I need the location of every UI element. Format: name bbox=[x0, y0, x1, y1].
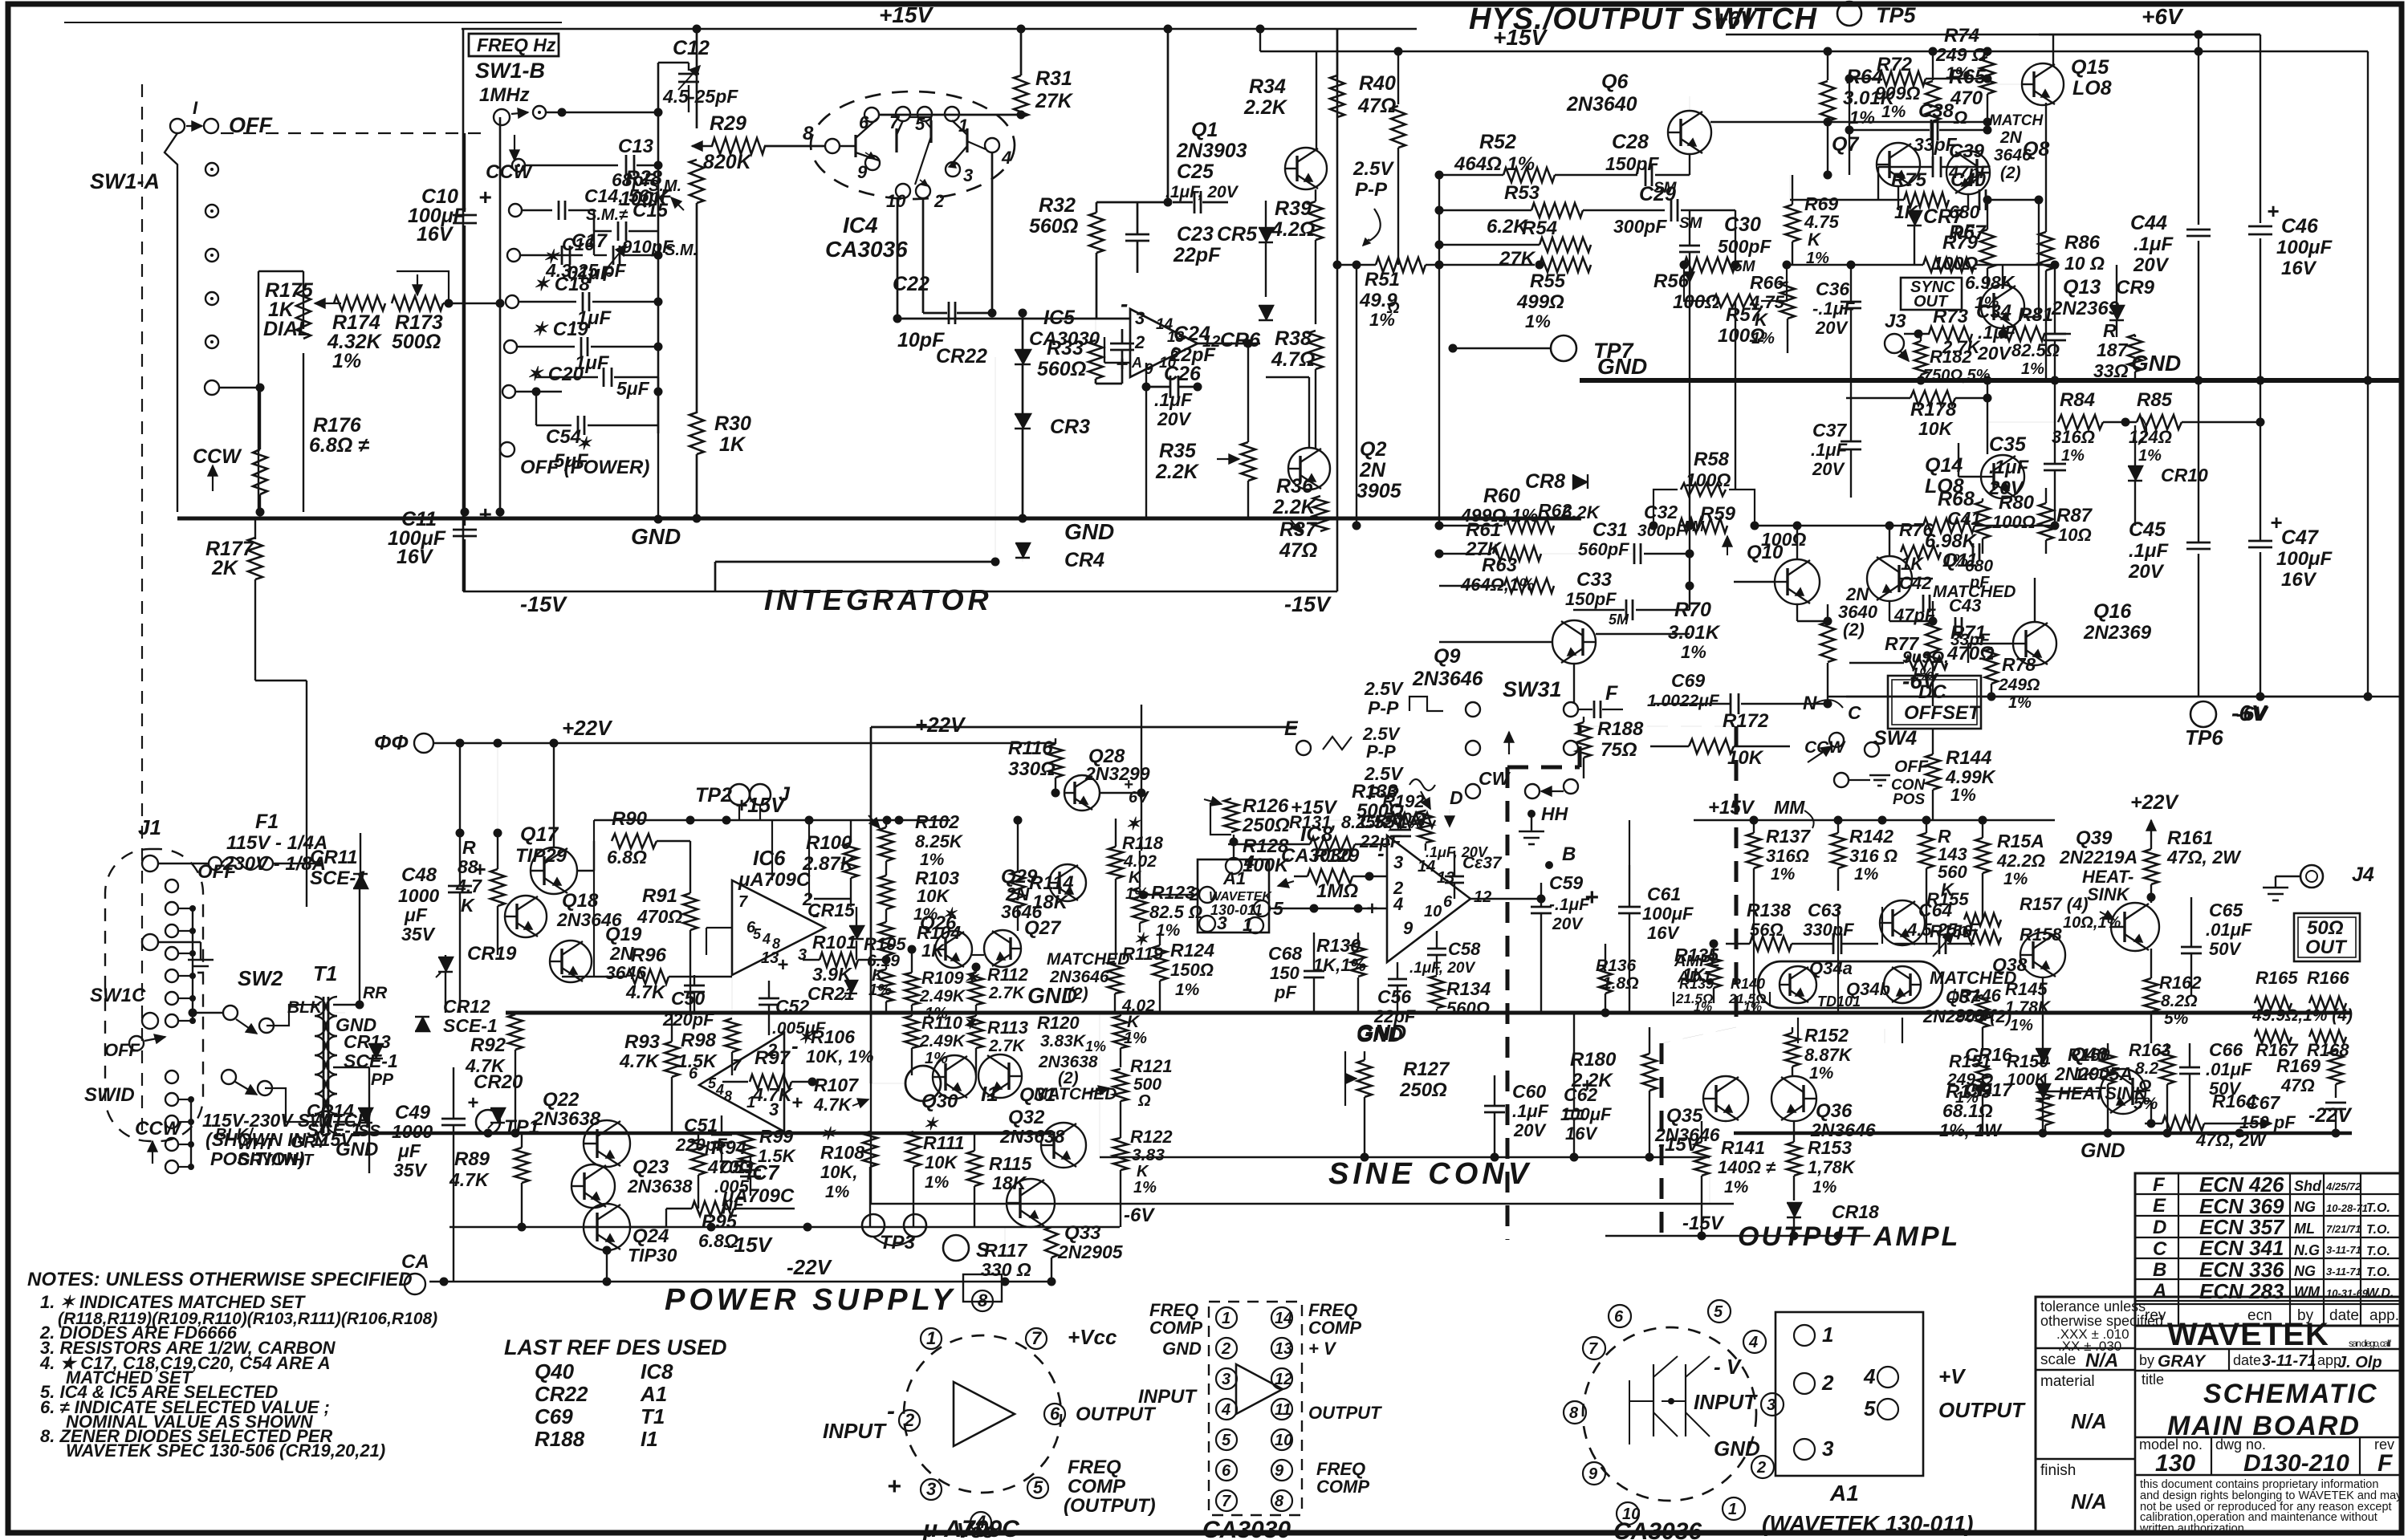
diode CR5 bbox=[1259, 228, 1273, 242]
svg-text:2N3903: 2N3903 bbox=[1176, 140, 1247, 162]
svg-text:+22V: +22V bbox=[2130, 791, 2179, 814]
resistor R99 1.5K bbox=[739, 1133, 754, 1165]
svg-text:C26: C26 bbox=[1164, 363, 1202, 385]
svg-text:7/21/71: 7/21/71 bbox=[2326, 1223, 2361, 1235]
capacitor C20 5uF bbox=[502, 385, 515, 398]
resistor R130 1K 1% bbox=[1351, 943, 1365, 977]
svg-text:IC4: IC4 bbox=[843, 213, 878, 238]
svg-text:2N3299: 2N3299 bbox=[1084, 763, 1150, 784]
svg-text:Q40: Q40 bbox=[2071, 1044, 2108, 1066]
svg-text:R38: R38 bbox=[1275, 327, 1312, 350]
capacitor C47 100uF 16V bbox=[2248, 540, 2272, 542]
diode CR8 bbox=[1573, 474, 1588, 489]
wire IC5 out bbox=[1198, 343, 1260, 345]
wire -15V output bbox=[1605, 1235, 1870, 1237]
svg-text:R90: R90 bbox=[612, 808, 648, 830]
capacitor C51 220pF bbox=[711, 1134, 732, 1136]
svg-text:4: 4 bbox=[1001, 148, 1011, 168]
svg-text:+15V: +15V bbox=[1493, 25, 1548, 50]
svg-text:NG: NG bbox=[2294, 1263, 2316, 1279]
resistor R68 6.98K 1% bbox=[1755, 525, 1923, 526]
svg-text:13: 13 bbox=[1437, 869, 1454, 887]
svg-text:J4: J4 bbox=[2352, 863, 2374, 886]
svg-text:100μF: 100μF bbox=[1560, 1104, 1612, 1124]
capacitor C61 100uF 16V bbox=[1618, 906, 1641, 908]
svg-text:C60: C60 bbox=[1512, 1081, 1546, 1102]
svg-text:1.78K: 1.78K bbox=[2005, 998, 2052, 1017]
svg-text:CCW: CCW bbox=[193, 445, 242, 468]
svg-text:220pF: 220pF bbox=[662, 1010, 714, 1030]
svg-text:6: 6 bbox=[689, 1065, 698, 1083]
svg-text:1%: 1% bbox=[2010, 1017, 2033, 1034]
svg-text:C17: C17 bbox=[571, 230, 608, 252]
svg-text:✶ C19: ✶ C19 bbox=[531, 319, 588, 340]
svg-text:4: 4 bbox=[1221, 1401, 1230, 1419]
svg-text:-6V: -6V bbox=[1124, 1205, 1155, 1226]
svg-text:820K: 820K bbox=[703, 151, 753, 173]
svg-text:C42: C42 bbox=[1899, 573, 1932, 593]
svg-text:187: 187 bbox=[2097, 339, 2129, 360]
J1 pin bottom bbox=[142, 1013, 158, 1029]
svg-text:R188: R188 bbox=[535, 1427, 585, 1451]
svg-text:TIP29: TIP29 bbox=[515, 845, 567, 867]
svg-text:NOTES: UNLESS OTHERWISE SPECIF: NOTES: UNLESS OTHERWISE SPECIFIED bbox=[27, 1269, 413, 1290]
svg-text:249 Ω: 249 Ω bbox=[1935, 44, 1987, 65]
resistor R74 249ohm 1% bbox=[1987, 51, 1988, 56]
svg-text:OFF: OFF bbox=[104, 1040, 140, 1060]
svg-text:N/A: N/A bbox=[2085, 1350, 2118, 1371]
svg-text:K: K bbox=[1808, 230, 1822, 250]
svg-text:1%: 1% bbox=[1854, 865, 1879, 884]
svg-text:R127: R127 bbox=[1403, 1058, 1450, 1080]
resistor R33 560 ohm bbox=[1088, 340, 1103, 379]
test point J bbox=[750, 784, 771, 805]
resistor R53 6.2K bbox=[1531, 203, 1583, 217]
resistor R54 27K bbox=[1540, 238, 1591, 252]
svg-text:ΦΦ: ΦΦ bbox=[374, 730, 409, 754]
svg-text:.01μF: .01μF bbox=[2206, 1059, 2252, 1079]
svg-text:2N2905: 2N2905 bbox=[1057, 1241, 1124, 1262]
svg-text:9: 9 bbox=[857, 162, 868, 182]
wire IC4 pin1 to R31 bbox=[879, 114, 1021, 116]
svg-text:FREQ Hz: FREQ Hz bbox=[477, 35, 556, 55]
svg-text:R108: R108 bbox=[820, 1142, 864, 1163]
capacitor C56 22pF bbox=[1388, 978, 1407, 981]
svg-text:3: 3 bbox=[798, 946, 807, 964]
svg-text:R144: R144 bbox=[1946, 747, 1991, 769]
svg-text:2.2K: 2.2K bbox=[1272, 496, 1317, 518]
svg-text:SINK: SINK bbox=[2087, 884, 2131, 904]
svg-text:C36: C36 bbox=[1816, 278, 1849, 299]
diode CR10 bbox=[2128, 466, 2142, 481]
svg-text:1%: 1% bbox=[1950, 785, 1976, 805]
diode CR13 SCE-1 bbox=[368, 1044, 383, 1058]
capacitor C68 150pF bbox=[1304, 970, 1324, 973]
svg-text:IC8: IC8 bbox=[1300, 822, 1333, 846]
svg-text:9: 9 bbox=[1588, 1465, 1598, 1483]
transistor Q7 bbox=[1877, 143, 1920, 186]
wire T1 primary left bbox=[266, 1005, 319, 1026]
svg-text:1%: 1% bbox=[2061, 447, 2085, 465]
svg-text:TP7: TP7 bbox=[1593, 339, 1635, 363]
wire I1 feed vertical bbox=[870, 727, 872, 1083]
svg-text:GRAY: GRAY bbox=[2158, 1352, 2207, 1371]
svg-text:BLK: BLK bbox=[287, 998, 323, 1017]
svg-text:SINE CONV: SINE CONV bbox=[1328, 1157, 1532, 1191]
svg-text:Q33: Q33 bbox=[1064, 1222, 1101, 1244]
wire Q13 emitter bbox=[2002, 328, 2003, 334]
svg-text:R78: R78 bbox=[2002, 654, 2036, 675]
svg-text:3: 3 bbox=[1135, 308, 1145, 328]
svg-text:14: 14 bbox=[1275, 1310, 1292, 1327]
resistor R152 8.87K 1% bbox=[1785, 1033, 1800, 1067]
resistor R112 2.7K bbox=[969, 973, 983, 1005]
resistor R84 316ohm 1% bbox=[2058, 415, 2103, 429]
svg-text:-22V: -22V bbox=[787, 1255, 833, 1279]
svg-text:20V: 20V bbox=[1815, 318, 1849, 338]
svg-text:2N3638: 2N3638 bbox=[999, 1126, 1065, 1147]
svg-text:✶: ✶ bbox=[820, 1124, 836, 1144]
transistor Q27 bbox=[984, 930, 1021, 967]
svg-text:13: 13 bbox=[1275, 1340, 1292, 1358]
svg-text:Q13: Q13 bbox=[2063, 276, 2101, 299]
svg-text:SW2: SW2 bbox=[238, 966, 283, 990]
svg-text:MATCH: MATCH bbox=[1989, 112, 2044, 129]
resistor R67 6.98K 1% bbox=[1787, 264, 1923, 266]
svg-text:COMP: COMP bbox=[1068, 1476, 1126, 1497]
svg-text:7: 7 bbox=[738, 893, 748, 911]
svg-text:ML: ML bbox=[2294, 1221, 2315, 1237]
svg-text:R110✶: R110✶ bbox=[921, 1013, 978, 1033]
revision row F bbox=[2135, 1193, 2402, 1195]
svg-text:title: title bbox=[2142, 1371, 2164, 1388]
svg-text:1000: 1000 bbox=[398, 885, 439, 906]
svg-text:CR15: CR15 bbox=[807, 900, 856, 920]
resistor R138 56 ohm bbox=[1750, 937, 1792, 951]
op-amp IC8 CA3030 triangle bbox=[1387, 835, 1470, 962]
svg-text:OUTPUT: OUTPUT bbox=[1308, 1403, 1382, 1423]
svg-text:5μF: 5μF bbox=[616, 378, 650, 399]
test point TP7 bbox=[1551, 335, 1576, 361]
svg-text:2N: 2N bbox=[1999, 128, 2023, 147]
svg-text:1%: 1% bbox=[1806, 250, 1829, 267]
potentiometer R56 100 ohm bbox=[1684, 258, 1735, 272]
transistor Q23 2N3638 bbox=[571, 1164, 615, 1208]
wire R175 frame bbox=[258, 270, 303, 272]
svg-text:SCE-1: SCE-1 bbox=[344, 1050, 398, 1071]
svg-text:R139: R139 bbox=[1679, 976, 1714, 992]
svg-text:10: 10 bbox=[1275, 1432, 1292, 1449]
svg-text:date: date bbox=[2233, 1352, 2261, 1368]
transistor Q29 2N3646 bbox=[1049, 864, 1086, 901]
svg-text:3-11-71: 3-11-71 bbox=[2326, 1266, 2361, 1278]
resistor R75 1K bbox=[1904, 193, 1949, 207]
svg-text:150: 150 bbox=[1270, 963, 1300, 983]
wire +15V to right bbox=[1858, 51, 2368, 53]
capacitor C26 .1uF 20V bbox=[1169, 376, 1172, 398]
svg-text:50Ω: 50Ω bbox=[2307, 917, 2344, 939]
svg-text:2.49K: 2.49K bbox=[919, 1032, 966, 1050]
resistor R95 6.8 ohm bbox=[692, 1201, 734, 1216]
svg-text:100Ω: 100Ω bbox=[1686, 469, 1731, 490]
svg-text:150pF: 150pF bbox=[1565, 589, 1617, 609]
svg-text:R29: R29 bbox=[710, 112, 746, 135]
svg-text:R162: R162 bbox=[2159, 973, 2202, 993]
wire IC8 out bbox=[1470, 898, 1541, 900]
svg-text:C63: C63 bbox=[1808, 900, 1841, 920]
svg-text:C58: C58 bbox=[1448, 939, 1481, 959]
svg-text:1%: 1% bbox=[2138, 447, 2162, 465]
svg-text:Q10: Q10 bbox=[1747, 542, 1784, 563]
transistor Q10 2N3640 bbox=[1775, 559, 1820, 604]
resistor R174 4.32K 1% bbox=[334, 296, 385, 311]
svg-text:10K: 10K bbox=[1727, 747, 1764, 769]
svg-text:3: 3 bbox=[1822, 1436, 1834, 1461]
svg-text:2.5V: 2.5V bbox=[1364, 678, 1404, 699]
svg-text:9: 9 bbox=[1275, 1462, 1284, 1480]
svg-text:C23: C23 bbox=[1177, 223, 1214, 246]
wire -15V sine bbox=[1100, 1156, 1710, 1159]
svg-text:47pF: 47pF bbox=[1893, 605, 1936, 625]
svg-text:500pF: 500pF bbox=[1718, 236, 1771, 257]
svg-text:R117: R117 bbox=[984, 1240, 1027, 1261]
svg-text:CR3: CR3 bbox=[1050, 416, 1090, 438]
svg-text:R40: R40 bbox=[1359, 72, 1396, 95]
svg-text:1%: 1% bbox=[2021, 360, 2044, 378]
resistor R178 10K bbox=[1910, 391, 1955, 405]
J1 pin mid bbox=[142, 934, 158, 950]
svg-text:6V: 6V bbox=[1129, 789, 1149, 807]
svg-text:6.8Ω ≠: 6.8Ω ≠ bbox=[309, 434, 369, 457]
svg-text:.1μF: .1μF bbox=[1811, 440, 1848, 460]
svg-text:5: 5 bbox=[1864, 1396, 1876, 1420]
capacitor C40 680pF bbox=[1979, 189, 1981, 210]
svg-text:750Ω,5%: 750Ω,5% bbox=[1923, 367, 1991, 384]
wire Q14 base bbox=[1959, 476, 1981, 477]
svg-text:22pF: 22pF bbox=[1359, 831, 1401, 851]
svg-text:.1μF: .1μF bbox=[1154, 389, 1193, 410]
svg-text:R161: R161 bbox=[2167, 827, 2213, 849]
wire GND output bus bbox=[1734, 1132, 2352, 1136]
svg-text:35V: 35V bbox=[401, 924, 436, 945]
svg-text:4: 4 bbox=[1393, 894, 1403, 914]
svg-text:1: 1 bbox=[926, 1328, 936, 1348]
transistor Q33 2N2905 bbox=[1007, 1179, 1055, 1227]
svg-text:(2): (2) bbox=[1068, 985, 1088, 1003]
svg-text:2N: 2N bbox=[1359, 459, 1386, 482]
svg-text:R129: R129 bbox=[1313, 845, 1360, 867]
wire E node long horizontal bbox=[871, 726, 1297, 729]
svg-text:3: 3 bbox=[1222, 1371, 1230, 1388]
test point TP1 bbox=[476, 1110, 500, 1134]
svg-text:12: 12 bbox=[1474, 888, 1491, 906]
svg-text:47Ω: 47Ω bbox=[2280, 1075, 2315, 1095]
svg-text:1%: 1% bbox=[1724, 1178, 1749, 1197]
capacitor C57 bbox=[1445, 876, 1464, 878]
svg-text:LAST REF DES USED: LAST REF DES USED bbox=[504, 1335, 727, 1359]
svg-text:470: 470 bbox=[1950, 87, 1983, 109]
diode CR12 SCE-1 bbox=[415, 1017, 429, 1031]
svg-text:R130: R130 bbox=[1316, 935, 1361, 956]
svg-text:C62: C62 bbox=[1564, 1084, 1597, 1105]
svg-text:Q37: Q37 bbox=[1946, 987, 1980, 1007]
capacitor C45 .1uF 20V bbox=[2186, 542, 2211, 544]
svg-text:R126: R126 bbox=[1243, 795, 1289, 817]
svg-text:R122: R122 bbox=[1130, 1127, 1173, 1147]
svg-text:K: K bbox=[1137, 1163, 1149, 1180]
svg-text:8: 8 bbox=[803, 123, 814, 144]
svg-text:1%: 1% bbox=[1743, 1001, 1762, 1014]
wire -6V to TP6 region bbox=[1828, 696, 2368, 698]
svg-text:1.5K: 1.5K bbox=[758, 1146, 797, 1166]
svg-text:W.D.: W.D. bbox=[2366, 1286, 2394, 1300]
svg-text:R32: R32 bbox=[1039, 194, 1076, 217]
diode CR17 bbox=[2036, 1084, 2050, 1099]
wire +15V power rail bbox=[594, 819, 950, 822]
wire IC4 pin4 down bbox=[991, 152, 994, 313]
svg-text:CR8: CR8 bbox=[1525, 470, 1565, 493]
svg-text:+: + bbox=[2270, 510, 2282, 534]
svg-text:pF: pF bbox=[1969, 574, 1990, 591]
svg-text:ECN 336: ECN 336 bbox=[2199, 1258, 2284, 1282]
svg-text:R118: R118 bbox=[1122, 833, 1164, 853]
svg-text:R124: R124 bbox=[1170, 940, 1214, 961]
svg-text:CR21: CR21 bbox=[807, 983, 855, 1004]
dual transistor Q34a Q34b TD101 bbox=[1758, 961, 1942, 1008]
resistor R172 10K bbox=[1689, 739, 1734, 754]
svg-text:100μF: 100μF bbox=[2276, 548, 2333, 570]
resistor R89 4.7K bbox=[515, 1148, 529, 1183]
svg-text:10Ω: 10Ω bbox=[2058, 525, 2092, 545]
switch SW31 wafer3 bbox=[1466, 784, 1480, 798]
wire R57 bracket to R58 bbox=[1735, 301, 1736, 490]
svg-text:COMP: COMP bbox=[1149, 1318, 1202, 1338]
svg-text:2: 2 bbox=[767, 1040, 778, 1060]
svg-text:Q26: Q26 bbox=[920, 912, 957, 934]
svg-text:R116: R116 bbox=[1008, 737, 1053, 759]
transistor Q13 2N2369 bbox=[1981, 285, 2024, 328]
svg-text:SCHEMATIC: SCHEMATIC bbox=[2203, 1379, 2378, 1409]
svg-text:R81: R81 bbox=[2018, 304, 2053, 326]
svg-text:20V: 20V bbox=[1552, 915, 1584, 933]
svg-text:✶: ✶ bbox=[543, 246, 560, 268]
resistor R120 3.83K 1% bbox=[1113, 1016, 1128, 1048]
svg-text:R169: R169 bbox=[2276, 1055, 2321, 1076]
svg-text:HEATSINK: HEATSINK bbox=[2058, 1083, 2149, 1103]
svg-text:Q23: Q23 bbox=[633, 1156, 669, 1178]
resistor R110 2.49K 1% bbox=[905, 1016, 919, 1048]
svg-text:+15V: +15V bbox=[879, 2, 934, 27]
transistor Q32 2N3638 bbox=[1041, 1123, 1086, 1168]
svg-text:2N3646: 2N3646 bbox=[1412, 668, 1484, 690]
svg-text:CR6: CR6 bbox=[1220, 329, 1261, 351]
revision header row bbox=[2135, 1303, 2402, 1305]
svg-text:N: N bbox=[1803, 693, 1817, 714]
transistor Q1 2N3903 bbox=[1285, 148, 1327, 189]
50 ohm OUT box bbox=[2294, 913, 2360, 961]
svg-text:CR18: CR18 bbox=[1832, 1201, 1879, 1222]
zener diode CR20 symbol bbox=[490, 1108, 505, 1123]
svg-text:C66: C66 bbox=[2209, 1039, 2243, 1060]
wire vertical bus x623 bbox=[499, 117, 502, 512]
svg-text:49.9Ω,1% (4): 49.9Ω,1% (4) bbox=[2251, 1006, 2353, 1025]
resistor R80 100ohm bbox=[1975, 502, 1990, 538]
svg-text:R155: R155 bbox=[1926, 889, 1969, 909]
svg-text:2.7K: 2.7K bbox=[988, 984, 1026, 1002]
svg-text:R109✶: R109✶ bbox=[921, 968, 980, 988]
svg-text:2: 2 bbox=[1221, 1340, 1230, 1358]
svg-text:R53: R53 bbox=[1504, 182, 1540, 204]
svg-text:250Ω: 250Ω bbox=[1242, 815, 1290, 836]
svg-text:+ V: + V bbox=[1308, 1339, 1337, 1359]
bold GND bus right bbox=[1580, 378, 2400, 383]
wire SW1-A dashed to SW1-B bbox=[221, 132, 486, 134]
svg-text:R60: R60 bbox=[1483, 485, 1520, 507]
capacitor C36 .1uF 20V bbox=[1841, 301, 1861, 303]
svg-text:CR19: CR19 bbox=[467, 943, 517, 965]
svg-text:7: 7 bbox=[1588, 1340, 1598, 1358]
svg-text:✶: ✶ bbox=[798, 1027, 814, 1047]
svg-text:50V: 50V bbox=[2209, 939, 2242, 959]
svg-text:R51: R51 bbox=[1365, 269, 1400, 291]
resistor R29 820K bbox=[712, 138, 765, 154]
resistor R135 1K bbox=[1706, 954, 1721, 988]
wire Q10/Q11 collectors bbox=[1796, 526, 1798, 559]
svg-text:6: 6 bbox=[1222, 1462, 1231, 1480]
svg-text:C12: C12 bbox=[673, 37, 710, 59]
svg-text:464Ω,1%: 464Ω,1% bbox=[1460, 575, 1535, 595]
diode CR6 bbox=[1259, 306, 1273, 320]
transistor Q38 bbox=[2020, 933, 2065, 977]
svg-text:130-011: 130-011 bbox=[1210, 902, 1263, 918]
svg-text:GND: GND bbox=[1714, 1436, 1760, 1461]
svg-text:R61: R61 bbox=[1466, 519, 1501, 541]
wire CR22 left vertical bbox=[995, 357, 996, 562]
svg-text:R54: R54 bbox=[1522, 217, 1557, 239]
resistor R31 27K bbox=[1020, 29, 1023, 75]
resistor R94 470 ohm bbox=[691, 1140, 706, 1175]
svg-text:LO8: LO8 bbox=[1925, 475, 1964, 498]
svg-text:10K,: 10K, bbox=[820, 1162, 857, 1182]
svg-text:8: 8 bbox=[978, 1290, 988, 1310]
svg-text:2: 2 bbox=[1756, 1459, 1766, 1477]
resistor R96 4.7K bbox=[627, 969, 669, 984]
capacitor C28 150pF SM bbox=[1555, 174, 1637, 176]
test point TP2 bbox=[729, 784, 750, 805]
svg-text:499Ω: 499Ω bbox=[1516, 291, 1564, 313]
svg-text:R72: R72 bbox=[1877, 54, 1913, 75]
svg-text:C50: C50 bbox=[671, 988, 705, 1009]
svg-text:AMPL: AMPL bbox=[1674, 953, 1720, 970]
capacitor C17 .01uF bbox=[507, 249, 520, 262]
svg-text:B: B bbox=[2153, 1259, 2166, 1281]
svg-text:I: I bbox=[193, 98, 198, 118]
svg-text:R75: R75 bbox=[1891, 169, 1927, 191]
capacitor C66 .01uF 50V bbox=[2179, 1067, 2200, 1069]
resistor R182 750ohm 5% bbox=[1914, 341, 1927, 375]
op-amp IC4 CA3036 dashed ellipse bbox=[811, 91, 1015, 199]
SYNC OUT box bbox=[1901, 278, 1962, 310]
svg-text:Q32: Q32 bbox=[1008, 1107, 1045, 1128]
switch contacts misc bbox=[222, 1070, 236, 1084]
svg-text:6: 6 bbox=[1443, 893, 1453, 911]
svg-text:2N2905 (2): 2N2905 (2) bbox=[1922, 1006, 2011, 1026]
wire +15V sine rail bbox=[1228, 819, 1390, 821]
svg-text:20V: 20V bbox=[1812, 459, 1845, 479]
resistor R117 330 ohm bbox=[1045, 1227, 1058, 1258]
zener diode CR19 bbox=[438, 957, 453, 972]
capacitor C29 300pF SM bbox=[1583, 209, 1665, 211]
